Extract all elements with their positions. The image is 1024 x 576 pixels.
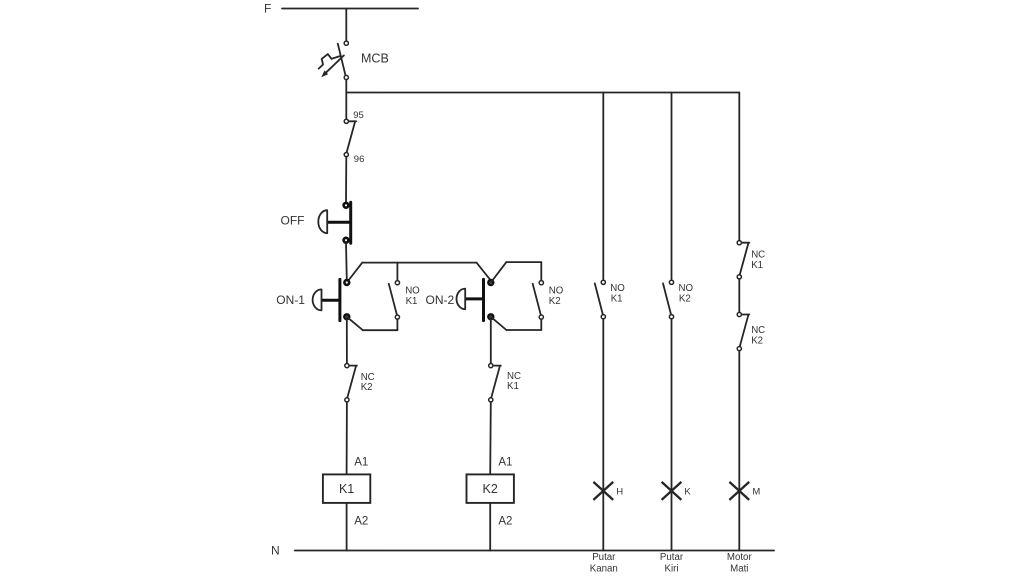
wire ON-1 bottom to NC K2: [346, 319, 348, 364]
svg-text:F: F: [264, 2, 271, 16]
svg-text:K2: K2: [751, 336, 763, 347]
wire OFF to ON-1: [345, 243, 348, 281]
svg-text:K: K: [684, 486, 691, 497]
wire NO K2 to lamp K and N: [671, 319, 673, 551]
svg-text:95: 95: [353, 110, 364, 121]
svg-text:96: 96: [354, 154, 365, 165]
wire ON-2 bottom to hold node: [491, 317, 507, 330]
auxiliary contact NO K2 (lamp K): [663, 280, 674, 319]
wire branch to ON-2 top: [477, 263, 491, 281]
svg-text:K1: K1: [751, 260, 763, 271]
wire bus to lamp H branch: [602, 93, 604, 281]
wire branch horizontal to ON-2: [362, 262, 476, 264]
indicator lamp M: [729, 482, 749, 500]
svg-text:Motor: Motor: [727, 552, 753, 563]
svg-text:K2: K2: [361, 382, 373, 393]
wire NC K2 to lamp M and N: [738, 351, 740, 551]
interlock contact NC K1: [489, 364, 501, 403]
svg-text:K2: K2: [549, 296, 561, 307]
pushbutton ON-1 (NO): [313, 279, 350, 320]
wire hold top horizontal K2: [506, 261, 541, 263]
svg-text:N: N: [271, 544, 280, 558]
svg-text:OFF: OFF: [281, 214, 305, 228]
wire hold bottom horizontal K2: [506, 329, 541, 331]
svg-text:Kanan: Kanan: [590, 563, 618, 574]
wire ON-2 bottom to NC K1: [490, 319, 492, 364]
svg-text:K1: K1: [339, 482, 354, 496]
pushbutton OFF (NC): [318, 202, 350, 243]
svg-text:A1: A1: [354, 456, 368, 468]
wire top bus to right branches: [346, 92, 739, 94]
svg-text:M: M: [752, 486, 760, 497]
overload NC contact 95-96: [344, 119, 356, 156]
svg-text:ON-2: ON-2: [426, 293, 455, 307]
wire drop to NO K2: [540, 262, 542, 281]
wire NC K1 to NC K2: [738, 279, 740, 313]
svg-text:Kiri: Kiri: [665, 563, 679, 574]
wire NO K2 bottom drop: [540, 319, 542, 330]
wire ON-1 bottom to hold node: [347, 317, 363, 330]
wire coil K2 to N: [489, 503, 491, 551]
wire F phase bus: [282, 8, 418, 10]
svg-text:NC: NC: [751, 250, 765, 261]
svg-text:K1: K1: [406, 296, 418, 307]
svg-text:H: H: [616, 486, 623, 497]
wire coil K1 to N: [346, 503, 348, 551]
pushbutton ON-2 (NO): [457, 279, 494, 320]
wire hold bottom horizontal: [363, 329, 398, 331]
interlock contact NC K2: [345, 364, 357, 403]
indicator lamp K: [662, 482, 682, 500]
contactor coil K1: [323, 474, 370, 503]
svg-text:MCB: MCB: [361, 52, 389, 66]
svg-text:A1: A1: [498, 456, 512, 468]
wire bus to lamp K branch: [671, 93, 673, 281]
svg-text:ON-1: ON-1: [276, 293, 305, 307]
wire MCB to junction and contact 95: [345, 80, 347, 120]
wire bus to lamp M branch: [738, 93, 740, 241]
svg-text:A2: A2: [354, 516, 368, 528]
wire ON-2 top to hold node: [491, 262, 507, 282]
wire NC K2 to coil K1: [346, 402, 348, 474]
wire ON-1 top to branch node: [347, 263, 363, 283]
svg-text:K1: K1: [507, 381, 519, 392]
svg-text:K1: K1: [611, 294, 623, 305]
auxiliary contact NO K1 (lamp H): [595, 280, 606, 319]
interlock contact NC K1 (lamp M): [737, 241, 749, 279]
wire NC K1 to coil K2: [489, 402, 492, 474]
indicator lamp H: [593, 482, 613, 500]
wire NO K1 bottom drop: [396, 319, 398, 330]
auxiliary contact NO K1: [389, 281, 400, 320]
wire contact 96 to OFF button: [345, 157, 347, 203]
contactor coil K2: [467, 474, 514, 503]
wire drop to NO K1: [396, 263, 398, 281]
svg-text:K2: K2: [483, 482, 498, 496]
svg-text:Mati: Mati: [730, 563, 748, 574]
svg-text:K2: K2: [679, 294, 691, 305]
auxiliary contact NO K2: [533, 281, 544, 320]
wire NO K1 to lamp H and N: [602, 319, 604, 551]
wire N neutral bus: [295, 550, 774, 552]
svg-text:NC: NC: [751, 325, 765, 336]
svg-text:A2: A2: [498, 516, 512, 528]
svg-text:Putar: Putar: [592, 552, 616, 563]
wire F bus to MCB: [345, 9, 347, 42]
svg-text:Putar: Putar: [660, 552, 684, 563]
interlock contact NC K2 (lamp M): [737, 312, 749, 350]
circuit breaker MCB: [319, 41, 349, 79]
